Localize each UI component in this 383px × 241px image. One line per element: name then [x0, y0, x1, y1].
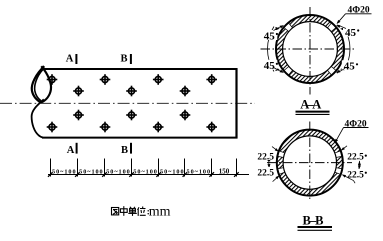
A-A leader SE	[337, 68, 345, 73]
A-A title underline 2	[296, 113, 330, 115]
break line lens middle stroke	[35, 70, 43, 101]
hole c6 upper-middle row	[180, 86, 191, 97]
B-B title underline 2	[298, 229, 333, 231]
hole c3 bottom row	[100, 122, 111, 133]
svg-text:A: A	[66, 53, 74, 64]
B-B outer circle	[277, 130, 343, 196]
A-A leader NW	[274, 26, 283, 31]
B-B hole gap at -16 deg	[335, 168, 344, 175]
hole c4 lower-middle row	[126, 110, 137, 121]
svg-text:A: A	[67, 145, 75, 156]
A-A inner circle	[283, 22, 338, 77]
A-A title underline 1	[296, 111, 330, 113]
B-B hole gap at 164 deg	[276, 150, 285, 157]
hole c1 top row	[47, 74, 58, 85]
B-B label 22.5 left-lower	[256, 167, 276, 179]
A-A crosshair horizontal	[261, 48, 356, 50]
svg-text:B: B	[121, 145, 128, 156]
svg-text:45: 45	[345, 27, 357, 39]
dimension line	[48, 174, 249, 176]
centerline of pipe	[0, 102, 255, 104]
hanzi 单	[128, 207, 137, 216]
svg-text:22.5: 22.5	[347, 153, 364, 163]
break line lens inner curve	[41, 66, 51, 102]
B-B left angle arc	[268, 158, 270, 167]
hanzi 中	[120, 206, 127, 216]
B-B label 22.5 left-upper	[256, 151, 276, 163]
svg-text:A–A: A–A	[300, 98, 321, 112]
A-A right angle dimension arc	[344, 28, 350, 70]
A-A hole gap at 315 deg	[327, 66, 337, 76]
hole c4 upper-middle row	[126, 86, 137, 97]
B-B gap edge lines	[277, 150, 343, 174]
hole c2 upper-middle row	[73, 86, 84, 97]
svg-text:45: 45	[264, 30, 276, 42]
B-B right angle arc	[358, 161, 360, 170]
break line lens (pipe broken end) outer curve	[32, 66, 45, 102]
A-A hole gap at 135 deg	[283, 22, 293, 32]
pipe bottom edge	[42, 137, 237, 139]
svg-text:50~100: 50~100	[187, 169, 211, 176]
A-A label 45 SW	[262, 60, 279, 72]
svg-text:45: 45	[344, 61, 356, 73]
B-B title underline 1	[298, 226, 333, 228]
hole c5 top row	[153, 74, 164, 85]
svg-text:50~100: 50~100	[52, 169, 76, 176]
section marker A top: tick	[75, 54, 77, 64]
A-A 4phi20 leader	[337, 14, 345, 23]
svg-text:50~100: 50~100	[160, 169, 184, 176]
hole c7 top row	[206, 74, 217, 85]
B-B crosshair vertical	[309, 122, 311, 202]
B-B label 22.5 right-upper	[346, 151, 367, 163]
A-A label 45 SE	[342, 60, 358, 72]
hole c5 bottom row	[153, 122, 164, 133]
svg-text:B: B	[120, 53, 127, 64]
pipe right edge	[235, 68, 237, 138]
B-B left label leaders	[272, 147, 278, 151]
svg-text:mm: mm	[149, 204, 171, 219]
section marker A bottom: tick	[76, 143, 78, 154]
A-A 4phi20 underline	[346, 13, 372, 15]
B-B label 22.5 right-lower	[346, 169, 367, 181]
A-A hatched ring	[276, 15, 344, 83]
hole c7 bottom row	[206, 122, 217, 133]
B-B right label leaders	[342, 146, 347, 150]
A-A outer circle	[276, 15, 344, 83]
A-A gap edge lines	[283, 22, 337, 76]
hanzi 位	[138, 207, 146, 216]
B-B crosshair horizontal	[267, 162, 352, 164]
A-A label 45 NE	[343, 27, 359, 39]
A-A leader SW	[274, 68, 283, 73]
svg-text:22.5: 22.5	[257, 153, 274, 163]
svg-text:45: 45	[264, 60, 276, 72]
A-A hole gap at 225 deg	[283, 66, 293, 76]
B-B inner circle	[283, 136, 336, 189]
B-B 4phi20 underline	[344, 127, 369, 129]
extension lines	[51, 159, 237, 177]
break line lower hook curve	[32, 99, 44, 137]
A-A hole gap at 45 deg	[327, 22, 337, 32]
hole c3 top row	[100, 74, 111, 85]
svg-text:22.5: 22.5	[257, 169, 274, 179]
section marker B top: tick	[130, 54, 132, 64]
svg-text:50~100: 50~100	[133, 169, 157, 176]
svg-text:150: 150	[219, 168, 230, 176]
hanzi 图	[112, 208, 119, 215]
B-B hole gap at 16 deg	[335, 150, 344, 157]
hole c2 lower-middle row	[73, 110, 84, 121]
dimension tick slashes	[48, 172, 239, 177]
B-B 4phi20 leader	[335, 128, 343, 143]
hole c1 bottom row	[47, 122, 58, 133]
svg-text:50~100: 50~100	[106, 169, 130, 176]
svg-text:B–B: B–B	[303, 214, 324, 228]
B-B hole gap at 196 deg	[276, 168, 285, 175]
A-A leader NE	[337, 25, 346, 29]
section marker B bottom: tick	[130, 143, 132, 154]
A-A left angle dimension arc	[268, 26, 274, 71]
A-A crosshair vertical	[309, 7, 311, 95]
svg-text:50~100: 50~100	[79, 169, 103, 176]
B-B hatched ring	[277, 130, 343, 196]
hole c6 lower-middle row	[180, 110, 191, 121]
A-A label 45 NW	[262, 30, 279, 42]
pipe top edge	[43, 68, 238, 70]
